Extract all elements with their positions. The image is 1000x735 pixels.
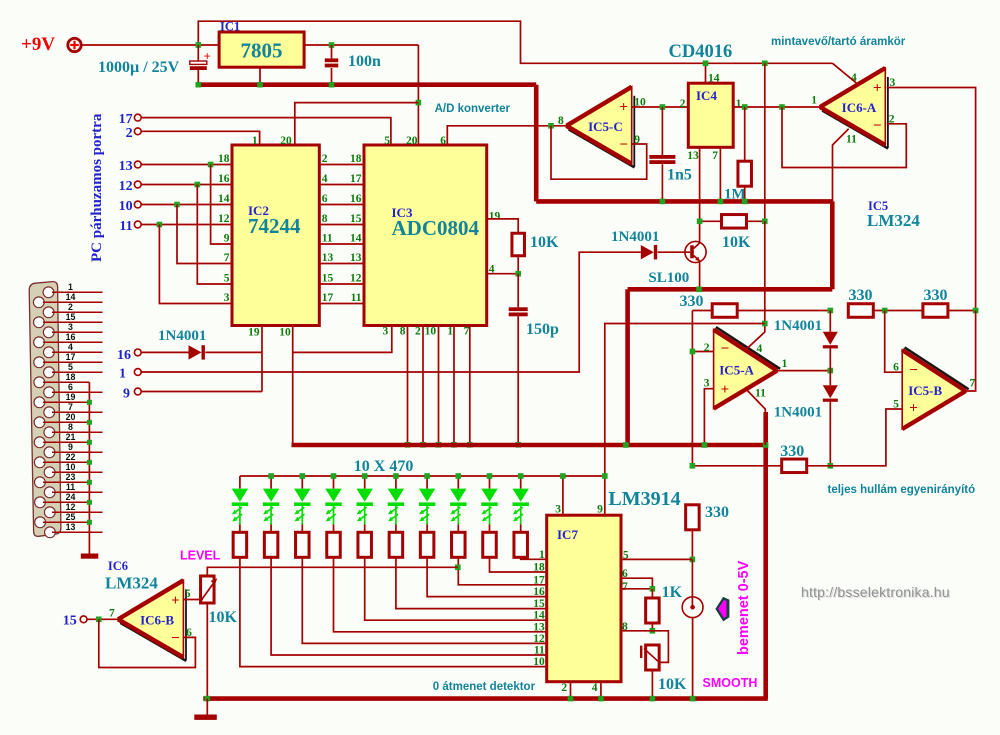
wire LED rail to IC7 pin 9 supply [604, 476, 606, 515]
DB25 pin 24 circle [35, 497, 46, 508]
LED D9 with resistor 470 [357, 476, 373, 557]
svg-text:18: 18 [533, 562, 545, 574]
svg-text:74244: 74244 [248, 214, 301, 238]
svg-text:mintavevő/tartó áramkör: mintavevő/tartó áramkör [771, 36, 906, 48]
svg-text:12: 12 [218, 213, 230, 225]
diode D2 1N4001 base [641, 245, 654, 259]
ground trunk thick vertical mid [625, 289, 630, 445]
wire 9V rail up to CD4016 supply [198, 21, 832, 63]
IC2 74244 buffer box [232, 145, 319, 326]
pin labels IC3 top [384, 135, 446, 147]
svg-text:10: 10 [279, 327, 291, 339]
junction rectifier output node [828, 463, 834, 469]
svg-text:3: 3 [555, 504, 561, 516]
pin labels IC5-A [704, 342, 788, 400]
svg-text:15: 15 [322, 273, 334, 285]
svg-text:13: 13 [322, 252, 334, 264]
junction 1000u bottom on bus [196, 82, 202, 88]
svg-text:1N4001: 1N4001 [158, 328, 206, 344]
ground trunk thick horizontal return [628, 287, 833, 292]
BNC connector bemenet [682, 597, 703, 618]
pin labels IC2 bottom [248, 327, 291, 339]
resistor 330 osc [712, 304, 737, 318]
svg-text:16: 16 [350, 193, 362, 205]
svg-text:CD4016: CD4016 [669, 42, 733, 62]
junction pot tap on R8 column [455, 565, 461, 571]
wire IC5-B pin 5 [692, 409, 902, 466]
ground trunk thick vertical to bottom [763, 412, 768, 699]
IC4 CD4016 box [688, 83, 733, 147]
wire IC1 output +5V [304, 44, 418, 46]
svg-text:+: + [619, 99, 628, 115]
svg-text:10: 10 [533, 656, 545, 668]
wire 10K right [747, 220, 765, 222]
svg-text:10 X 470: 10 X 470 [354, 458, 414, 475]
pin labels IC4 [680, 73, 742, 163]
label IC6 LM324 [105, 559, 158, 593]
DB25 pin 12 wire [52, 511, 103, 513]
wire IC5-A output [777, 370, 830, 372]
svg-text:PC párhuzamos portra: PC párhuzamos portra [89, 113, 105, 262]
svg-text:15: 15 [533, 598, 545, 610]
DB25 pin 15 circle [34, 317, 45, 328]
svg-text:9: 9 [597, 504, 603, 516]
wire port 16 to diode [141, 351, 188, 353]
svg-text:10K: 10K [722, 234, 751, 251]
svg-text:1K: 1K [662, 584, 683, 601]
svg-text:−: − [721, 341, 730, 357]
DB25 pin 4 wire [52, 351, 103, 353]
wire ADC pin 19 to 10K [487, 219, 519, 233]
svg-text:16: 16 [66, 332, 76, 342]
junction 1K pin8 node [650, 628, 656, 634]
LED D5 with resistor 470 [232, 476, 248, 557]
svg-text:1: 1 [539, 549, 545, 561]
junction LED rail 6 [393, 473, 399, 479]
pin labels IC7 right [622, 550, 629, 634]
DB25 pin 1 circle [43, 287, 54, 298]
DB25 pin 16 wire [43, 341, 103, 343]
svg-text:18: 18 [218, 153, 230, 165]
DB25 pin 25 circle [35, 517, 46, 528]
svg-text:14: 14 [708, 73, 720, 85]
wire port 11 to IC2 pin 12 [141, 224, 232, 226]
wire ADC pin 6 to IC5-C input [447, 126, 566, 145]
IC1 regulator 7805 box [219, 32, 304, 67]
DB25 pin 1 wire [52, 291, 103, 293]
wire IC7 pin 2 ground [570, 682, 572, 699]
junction DB25 ground pin 25 [87, 520, 92, 525]
junction DB25 ground pin 20 [87, 420, 92, 425]
DB25 pin 13 circle [45, 527, 56, 538]
capacitor C2 100n [325, 45, 339, 85]
svg-text:17: 17 [322, 292, 334, 304]
DB25 pin 10 circle [44, 467, 55, 478]
wire LED resistor to IC7 pin 16 [427, 557, 547, 596]
DB25 pin 20 wire [43, 421, 89, 423]
resistor 330 rectifier series [782, 459, 807, 473]
wire LED resistor to IC7 pin 13 [334, 557, 547, 632]
svg-text:−: − [171, 630, 180, 646]
DB25 pin 2 wire [52, 311, 103, 313]
DB25 pin 22 wire [43, 461, 89, 463]
wire LED resistor to IC7 pin 11 [271, 557, 547, 655]
wire IC6-A pin 3 to rectifier chain [887, 88, 976, 311]
junction 1n5 bottom on bus [660, 199, 666, 205]
wire branch to IC2 pin 9 [211, 165, 232, 245]
wire IC6-A pin 11 to ground trunk [833, 129, 849, 202]
wire 330 chain mid [873, 310, 923, 312]
wire BNC shield to ground [692, 618, 694, 699]
wire IC7 pin 3 supply [562, 476, 564, 515]
junction 100n top [329, 42, 335, 48]
ground symbol bottom [194, 699, 217, 720]
junction 150p ground on bus [515, 442, 521, 448]
pin labels IC7 bottom [561, 682, 597, 694]
DB25 pin 25 wire [43, 521, 89, 523]
svg-text:7: 7 [464, 326, 470, 338]
svg-text:150p: 150p [526, 321, 559, 338]
op-amp IC5-C [569, 129, 635, 167]
junction DB25 ground pin 22 [87, 460, 92, 465]
junction pot ground [205, 696, 211, 702]
junction IC5-C output feedback [548, 123, 554, 129]
svg-text:14: 14 [218, 193, 230, 205]
svg-text:12: 12 [66, 502, 76, 512]
junction trimmer gnd [650, 696, 656, 702]
DB25 pin 4 circle [43, 347, 54, 358]
wire IC2 pin 10 ground to bus [292, 326, 294, 445]
wire IC5-B output feedback [966, 311, 976, 392]
wire port 10 to IC2 pin 14 [141, 204, 232, 206]
DB25 pin 8 circle [44, 427, 55, 438]
wire IC5-A pin 4 supply [747, 221, 765, 348]
svg-text:19: 19 [248, 327, 260, 339]
svg-text:16: 16 [533, 586, 545, 598]
wire branch to IC2 pin 5 [197, 185, 232, 285]
op-amp IC6-B [120, 623, 186, 661]
junction LED rail 5 [362, 473, 368, 479]
svg-text:3: 3 [704, 378, 710, 390]
junction rail pin9 [602, 473, 608, 479]
junction port 13 branch [208, 162, 214, 168]
svg-text:7: 7 [68, 402, 73, 412]
svg-text:6: 6 [68, 382, 73, 392]
DB25 pin 9 wire [52, 451, 103, 453]
DB25 pin 2 circle [43, 307, 54, 318]
wire LED resistor to IC7 pin 14 [365, 557, 547, 620]
ground symbol DB25 [81, 554, 99, 559]
capacitor C1 1000u/25V [190, 45, 211, 85]
wire LED resistor to IC7 pin 1 [521, 557, 547, 559]
svg-text:6: 6 [440, 135, 446, 147]
wire branch to IC2 pin 3 [159, 225, 232, 304]
wire IC4 pin 14 supply [705, 63, 707, 83]
wire to 1K top [651, 589, 653, 598]
ground trunk thick vertical left [534, 85, 539, 202]
svg-text:+: + [721, 382, 730, 398]
junction DB25 ground pin 19 [87, 400, 92, 405]
wire BNC center to signal node [691, 559, 693, 606]
wire IC7 pin 6 to pin 7 [621, 578, 652, 589]
DB25 pin 13 wire [52, 531, 103, 533]
DB25 pin 18 wire [43, 381, 89, 383]
pin labels IC6-B [109, 588, 192, 639]
DB25 pin 14 circle [33, 297, 44, 308]
svg-text:330: 330 [705, 504, 729, 521]
wire diode to IC2 pin 19 node [205, 351, 262, 353]
svg-text:2: 2 [415, 326, 421, 338]
svg-text:15: 15 [63, 614, 77, 629]
junction pin4 rail horizontal tap [762, 321, 768, 327]
svg-text:7: 7 [970, 378, 976, 390]
ground bus thick above LM3914 [292, 443, 767, 448]
DB25 pin 3 wire [52, 331, 103, 333]
svg-text:13: 13 [119, 159, 133, 174]
svg-text:100n: 100n [348, 53, 381, 70]
pin labels IC3 left [350, 153, 362, 304]
svg-text:13: 13 [687, 150, 699, 162]
svg-text:8: 8 [400, 326, 406, 338]
label IC5 LM324 [867, 199, 920, 230]
wire 9V rail branch vertical [764, 63, 766, 221]
wire IC6-A pin 4 supply diagonal [833, 63, 858, 84]
LED D10 with resistor 470 [388, 476, 404, 557]
wire +5V down to ADC pin 20 [417, 45, 419, 145]
svg-text:1: 1 [119, 367, 126, 382]
pin labels IC2 right [322, 153, 334, 304]
op-amp IC6-A [822, 111, 888, 149]
wire LED resistor to IC7 pin 15 [396, 557, 547, 608]
svg-text:17: 17 [350, 173, 362, 185]
svg-text:10: 10 [119, 199, 133, 214]
IC3 ADC0804 box [364, 145, 487, 326]
svg-text:11: 11 [351, 292, 362, 304]
DB25 pin 14 wire [43, 301, 103, 303]
junction LED rail 10 [518, 473, 524, 479]
svg-text:9: 9 [123, 387, 130, 402]
potentiometer 10K LEVEL [200, 576, 217, 603]
terminal port pin 15 [63, 614, 87, 629]
svg-text:18: 18 [66, 372, 76, 382]
junction pin14 on 9V rail [703, 61, 709, 67]
svg-text:10: 10 [425, 326, 437, 338]
svg-text:10: 10 [66, 462, 76, 472]
junction BNC gnd [690, 696, 696, 702]
junction chain right [973, 308, 979, 314]
wire IC7 pin 5 input [621, 558, 692, 560]
svg-text:LM324: LM324 [867, 211, 920, 230]
wire DB25 ground chain [88, 382, 90, 553]
svg-text:3: 3 [382, 326, 388, 338]
DB25 pin 15 wire [43, 321, 103, 323]
junction 1n5 top [660, 104, 666, 110]
svg-text:3: 3 [68, 322, 73, 332]
svg-text:2: 2 [680, 98, 686, 110]
svg-text:7: 7 [224, 252, 230, 264]
LED D6 with resistor 470 [263, 476, 279, 557]
DB25 pin 17 circle [34, 357, 45, 368]
svg-text:+: + [873, 81, 882, 97]
svg-text:19: 19 [66, 392, 76, 402]
svg-text:9: 9 [68, 442, 73, 452]
svg-text:1: 1 [736, 98, 742, 110]
pin labels IC7 top [555, 504, 603, 516]
svg-text:16: 16 [218, 173, 230, 185]
svg-text:1: 1 [68, 282, 73, 292]
svg-text:+: + [909, 401, 918, 417]
junction pin6 pin7 [650, 586, 656, 592]
DB25 pin 5 circle [44, 367, 55, 378]
svg-text:3: 3 [224, 292, 230, 304]
resistor 1M [738, 161, 752, 186]
LED D8 with resistor 470 [325, 476, 341, 557]
resistor 330 chain second [923, 304, 948, 318]
wire 10K left [700, 220, 722, 222]
capacitor 1n5 [649, 107, 675, 201]
terminal port pin 13 [119, 159, 142, 174]
wire 10K to pin 4 [517, 256, 519, 274]
DB25 pin 19 wire [43, 401, 89, 403]
svg-text:330: 330 [849, 287, 873, 304]
DB25 parallel port connector body [29, 282, 61, 537]
DB25 pin 20 circle [34, 417, 45, 428]
wire IC5-A pin2 tap [692, 351, 713, 353]
wire port 17 to ADC pin 5 [141, 118, 391, 145]
wire LED resistor to IC7 pin 17 [458, 557, 546, 585]
wire 330 osc left branch [691, 311, 693, 466]
wire IC5-A pin 3 ground [704, 389, 713, 445]
wire LED resistor to IC7 pin 12 [302, 557, 546, 643]
wire +5V branch to IC2 pin 20 [295, 103, 419, 145]
pin labels IC7 left [533, 549, 545, 668]
junction 9V rail branch down [762, 61, 768, 67]
svg-text:−: − [873, 118, 882, 134]
junction 10K on 9V branch [762, 219, 768, 225]
wire 1M bottom to bus [744, 186, 746, 201]
junction chain mid [882, 308, 888, 314]
DB25 pin 8 wire [52, 431, 103, 433]
wire chain to feedback node [948, 310, 976, 312]
wire IC6-B feedback loop [99, 619, 196, 667]
DB25 pin 19 circle [34, 397, 45, 408]
junction IC6-B output feedback [96, 617, 102, 623]
svg-text:11: 11 [755, 388, 766, 400]
svg-text:2: 2 [126, 126, 133, 141]
svg-text:1: 1 [447, 326, 453, 338]
svg-text:10K: 10K [209, 609, 238, 626]
svg-text:7: 7 [622, 581, 628, 593]
svg-text:SMOOTH: SMOOTH [703, 676, 758, 690]
diode D3 1N4001 upper [823, 311, 838, 371]
svg-text:21: 21 [66, 432, 76, 442]
resistor 330 chain first [848, 304, 873, 318]
svg-text:12: 12 [119, 179, 133, 194]
DB25 pin 6 wire [52, 391, 103, 393]
svg-text:11: 11 [66, 482, 75, 492]
wire 330 vertical to pin5 node [691, 530, 693, 560]
wire 330 osc stubs [692, 310, 712, 312]
svg-text:2: 2 [704, 342, 710, 354]
svg-text:2: 2 [561, 682, 567, 694]
wire port 2 to IC2 pin 1 [141, 131, 259, 145]
wire branch to IC2 pin 7 [177, 205, 232, 264]
svg-text:10K: 10K [530, 234, 559, 251]
svg-text:330: 330 [680, 293, 704, 310]
svg-text:20: 20 [66, 412, 76, 422]
svg-text:5: 5 [224, 273, 230, 285]
svg-text:A/D konverter: A/D konverter [435, 103, 511, 115]
svg-text:teljes hullám egyenirányító: teljes hullám egyenirányító [828, 484, 976, 496]
wire port 13 to IC2 pin 18 [141, 164, 232, 166]
DB25 pin 11 wire [52, 491, 103, 493]
junction pin4 gnd [598, 696, 604, 702]
ground trunk thick horizontal mid [536, 199, 832, 204]
wire 150p bottom to ground bus [517, 316, 519, 445]
diode D4 1N4001 lower [823, 371, 838, 466]
junction LED rail 8 [456, 473, 462, 479]
svg-text:14: 14 [533, 610, 545, 622]
junction LED rail 9 [487, 473, 493, 479]
svg-text:330: 330 [924, 287, 948, 304]
svg-text:1: 1 [252, 135, 258, 147]
svg-text:25: 25 [66, 512, 76, 522]
wire IC2 pin19 vertical [261, 326, 263, 392]
wire pot top to R8 column [207, 567, 457, 576]
svg-text:1000µ / 25V: 1000µ / 25V [98, 59, 180, 76]
svg-text:5: 5 [185, 588, 191, 600]
svg-text:12: 12 [533, 633, 545, 645]
junction rail pin3 [560, 473, 566, 479]
junction port 12 branch [195, 182, 201, 188]
svg-text:12: 12 [350, 273, 362, 285]
wire ADC bottom grounds [405, 326, 473, 448]
svg-text:8: 8 [322, 213, 328, 225]
wire IC4 pin 1 to IC6-A [733, 106, 820, 108]
svg-text:18: 18 [350, 153, 362, 165]
junction port 11 branch [157, 222, 163, 228]
DB25 pin 7 wire [52, 411, 103, 413]
svg-text:20: 20 [406, 135, 418, 147]
junction 10K collector [697, 219, 703, 225]
resistor 10K adc clock [512, 233, 525, 256]
svg-text:7805: 7805 [241, 39, 283, 63]
junction DB25 ground pin 24 [87, 500, 92, 505]
wire trimmer bottom ground [651, 670, 653, 699]
junction emitter on trunk [696, 287, 702, 293]
wire diode to base [658, 251, 691, 253]
wire +9V to IC1 input [82, 44, 220, 46]
svg-text:SL100: SL100 [648, 270, 689, 286]
svg-text:15: 15 [350, 213, 362, 225]
pin labels IC3 bottom [382, 326, 469, 338]
svg-text:8: 8 [558, 115, 564, 127]
svg-text:http://bsselektronika.hu: http://bsselektronika.hu [801, 584, 950, 600]
svg-text:1: 1 [811, 95, 817, 107]
wire IC7 pin 7 [621, 588, 652, 590]
svg-text:LM324: LM324 [105, 574, 158, 593]
wire port 12 to IC2 pin 16 [141, 184, 232, 186]
svg-text:4: 4 [757, 343, 763, 355]
trimmer 10K SMOOTH [641, 645, 659, 670]
LED anode rail [240, 475, 605, 477]
pin labels IC6-A [811, 72, 895, 146]
junction pin4 node [515, 271, 521, 277]
svg-text:7: 7 [109, 608, 115, 620]
data bus wires IC2 to IC3 [319, 165, 364, 304]
wire IC6-B pin 5 to pot wiper [184, 599, 204, 601]
wire port 9 to pin19 node [141, 391, 262, 393]
